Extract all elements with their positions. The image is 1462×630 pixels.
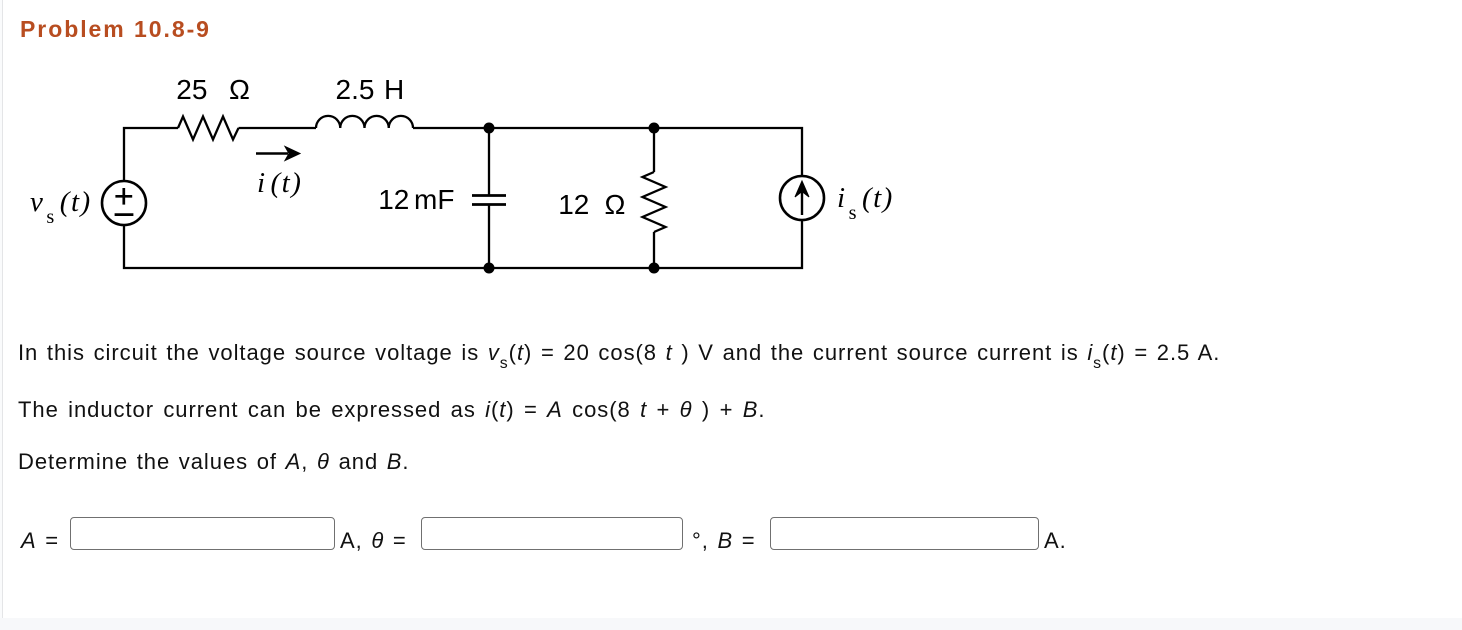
wire: inductor to top-right corner and upper right rail — [413, 128, 802, 176]
node junction top capacitor — [484, 123, 495, 134]
label ohm for 25 — [229, 74, 250, 106]
resistor R1 25 ohm — [178, 117, 239, 140]
label i(t) — [257, 167, 302, 200]
footer bar — [0, 618, 1462, 630]
label is(t) — [837, 182, 894, 220]
circuit schematic — [0, 0, 940, 300]
label vs(t) — [30, 186, 92, 224]
current source is(t) — [780, 176, 824, 220]
paragraph 3 — [18, 449, 409, 475]
title — [20, 16, 211, 43]
capacitor C1 12 mF — [472, 128, 506, 268]
wire: 12 ohm branch to bottom rail — [653, 232, 655, 268]
inductor L1 2.5 H — [316, 116, 413, 128]
wire: lower left rail and bottom rail and lower right rail — [124, 220, 802, 268]
paragraph 2 — [18, 397, 765, 423]
label H unit — [384, 74, 404, 106]
answer row — [21, 528, 59, 554]
label 12 value (capacitor) — [378, 184, 409, 216]
wire: resistor to inductor — [239, 127, 317, 129]
current arrow i(t) — [256, 147, 300, 161]
left edge rule — [0, 0, 2, 618]
label mF unit — [414, 184, 454, 216]
resistor R2 12 ohm vertical — [643, 172, 666, 232]
label 2.5 value — [336, 74, 375, 106]
wire: top rail into 12 ohm branch — [653, 128, 655, 172]
label 25 value — [176, 74, 207, 106]
node junction top 12 ohm — [649, 123, 660, 134]
wire: top-left segment and upper left rail — [124, 128, 178, 181]
label 12 value (resistor) — [558, 189, 589, 221]
node junction bottom 12 ohm — [649, 263, 660, 274]
label ohm for 12 — [605, 189, 626, 221]
paragraph 1 — [18, 340, 1220, 366]
node junction bottom capacitor — [484, 263, 495, 274]
voltage source vs(t) — [102, 181, 146, 225]
